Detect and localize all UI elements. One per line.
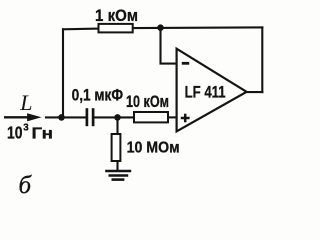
svg-text:10 кОм: 10 кОм <box>126 93 169 111</box>
op-amp U1 plus pin mark <box>181 114 190 123</box>
node A (feedback junction) <box>157 24 164 31</box>
op-amp U1 LF411 triangle <box>177 49 247 132</box>
node B (input junction) <box>58 114 65 121</box>
resistor R3 10 МОм <box>112 134 121 161</box>
wire left vertical (feedback down to input node) <box>62 29 64 117</box>
svg-text:б: б <box>19 172 33 197</box>
capacitor C1 0,1 мкФ <box>87 108 93 126</box>
wire capacitor to R2 <box>93 116 134 118</box>
resistor R1 1 кОм <box>99 24 133 33</box>
wire node to R3 top <box>116 117 118 134</box>
svg-text:10 МОм: 10 МОм <box>127 139 180 156</box>
wire R3 bottom to ground <box>116 161 118 170</box>
svg-text:10: 10 <box>7 123 23 143</box>
input arrow (signal source) <box>4 114 40 121</box>
wire inverting-input segment (node to op-amp minus) <box>161 28 177 64</box>
node C (R3 junction) <box>114 114 121 121</box>
wire top-left segment (feedback to R1) <box>63 28 99 31</box>
op-amp U1 minus pin mark <box>182 62 189 65</box>
svg-text:LF 411: LF 411 <box>185 82 226 101</box>
resistor R2 10 кОм <box>134 112 168 122</box>
svg-text:3: 3 <box>23 122 29 133</box>
wire top-right segment (R1 to output corner) <box>133 26 263 29</box>
wire input segment (arrow to capacitor) <box>46 116 87 118</box>
svg-text:Гн: Гн <box>32 126 54 143</box>
svg-text:1 кОм: 1 кОм <box>95 6 138 25</box>
wire R2 to op-amp plus <box>168 116 177 118</box>
ground <box>105 171 131 180</box>
svg-text:0,1 мкФ: 0,1 мкФ <box>72 86 124 104</box>
wire output segment (op-amp output to corner) <box>247 91 263 93</box>
svg-text:L: L <box>19 90 32 115</box>
wire right vertical (output up to feedback) <box>261 27 263 92</box>
